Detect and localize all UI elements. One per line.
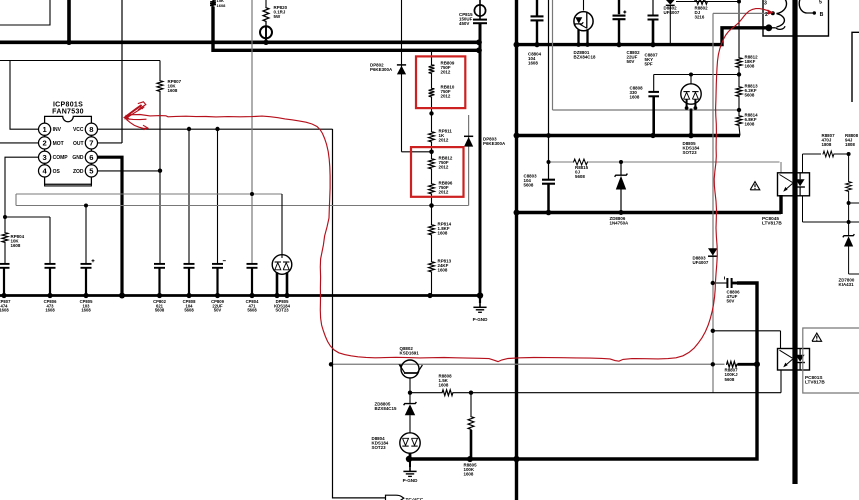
svg-text:BZX84C18: BZX84C18: [574, 55, 596, 60]
svg-text:1608: 1608: [168, 88, 178, 93]
svg-text:P6KE300A: P6KE300A: [483, 141, 506, 146]
svg-text:GND: GND: [72, 155, 84, 161]
svg-text:1608: 1608: [630, 95, 640, 100]
svg-text:P-GND: P-GND: [403, 478, 418, 483]
svg-text:1608: 1608: [0, 308, 9, 313]
svg-text:1608: 1608: [745, 122, 755, 127]
svg-text:5608: 5608: [247, 308, 257, 313]
svg-text:LTV817B: LTV817B: [762, 221, 782, 226]
svg-text:2: 2: [765, 12, 768, 18]
svg-text:3216: 3216: [695, 15, 705, 20]
svg-text:ZOD: ZOD: [73, 169, 84, 175]
svg-text:P6KE300A: P6KE300A: [370, 67, 393, 72]
svg-text:5PF: 5PF: [645, 62, 653, 67]
svg-text:2012: 2012: [441, 94, 451, 99]
svg-text:2012: 2012: [439, 190, 449, 195]
svg-text:5: 5: [819, 0, 822, 5]
svg-text:BZX84C15: BZX84C15: [375, 406, 397, 411]
svg-text:2012: 2012: [441, 70, 451, 75]
svg-text:UF4007: UF4007: [693, 260, 709, 265]
svg-text:1608: 1608: [439, 383, 449, 388]
svg-text:OS: OS: [53, 169, 61, 175]
svg-text:OUT: OUT: [73, 141, 84, 147]
svg-text:VCC: VCC: [73, 127, 84, 133]
svg-text:1608: 1608: [528, 61, 538, 66]
svg-text:5608: 5608: [184, 308, 194, 313]
svg-text:50V: 50V: [627, 59, 635, 64]
svg-text:50V: 50V: [727, 299, 735, 304]
svg-text:MOT: MOT: [53, 141, 64, 147]
svg-text:INV: INV: [53, 127, 62, 133]
svg-text:2: 2: [42, 139, 46, 148]
svg-text:5608: 5608: [575, 174, 585, 179]
svg-text:50V: 50V: [214, 308, 222, 313]
svg-text:3: 3: [764, 1, 767, 7]
svg-text:P-GND: P-GND: [473, 317, 488, 322]
svg-text:1608: 1608: [217, 3, 227, 8]
svg-text:1608: 1608: [438, 268, 448, 273]
svg-text:1608: 1608: [11, 243, 21, 248]
svg-text:8: 8: [89, 125, 93, 134]
svg-text:5608: 5608: [745, 93, 755, 98]
svg-text:1608: 1608: [438, 231, 448, 236]
svg-text:LTV817B: LTV817B: [805, 380, 825, 385]
svg-text:2012: 2012: [439, 165, 449, 170]
svg-text:FAN7530: FAN7530: [52, 109, 84, 116]
svg-text:1608: 1608: [745, 64, 755, 69]
svg-text:450V: 450V: [459, 21, 469, 26]
svg-text:SOT23: SOT23: [372, 445, 387, 450]
svg-text:SOT23: SOT23: [683, 150, 698, 155]
svg-text:COMP: COMP: [53, 155, 69, 161]
svg-text:B: B: [820, 12, 824, 18]
svg-text:ICP801S: ICP801S: [53, 101, 83, 108]
svg-text:7: 7: [89, 139, 93, 148]
svg-text:5608: 5608: [155, 308, 165, 313]
svg-text:UF4007: UF4007: [664, 10, 680, 15]
svg-text:KIA431: KIA431: [839, 282, 855, 287]
svg-text:1608: 1608: [81, 308, 91, 313]
svg-text:1808: 1808: [822, 142, 832, 147]
svg-text:1608: 1608: [464, 472, 474, 477]
svg-text:5608: 5608: [524, 183, 534, 188]
svg-text:2012: 2012: [439, 138, 449, 143]
svg-text:1608: 1608: [45, 308, 55, 313]
svg-text:3: 3: [42, 153, 46, 162]
svg-text:1N4750A: 1N4750A: [610, 221, 630, 226]
svg-text:SOT23: SOT23: [275, 308, 289, 313]
svg-text:KSD1691: KSD1691: [400, 351, 420, 356]
svg-text:1808: 1808: [845, 142, 855, 147]
svg-text:5608: 5608: [725, 377, 735, 382]
svg-text:5W: 5W: [274, 14, 281, 19]
svg-text:6: 6: [89, 153, 93, 162]
